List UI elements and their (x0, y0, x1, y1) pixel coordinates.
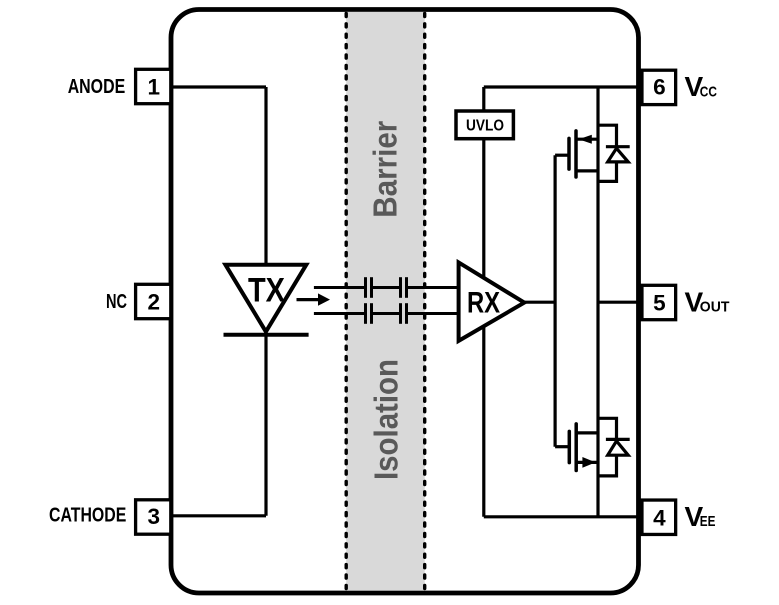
svg-text:Isolation: Isolation (368, 359, 405, 480)
svg-text:1: 1 (147, 74, 160, 99)
svg-text:4: 4 (653, 505, 666, 530)
svg-text:OUT: OUT (700, 299, 730, 316)
svg-text:ANODE: ANODE (68, 76, 126, 98)
svg-text:CATHODE: CATHODE (49, 505, 126, 527)
svg-text:TX: TX (248, 272, 285, 310)
svg-text:EE: EE (700, 513, 716, 530)
svg-text:2: 2 (147, 290, 160, 315)
svg-text:5: 5 (653, 291, 666, 316)
svg-text:NC: NC (106, 291, 127, 313)
svg-text:CC: CC (700, 83, 717, 100)
svg-text:3: 3 (147, 504, 160, 529)
svg-text:Barrier: Barrier (367, 121, 404, 218)
svg-text:RX: RX (467, 287, 500, 320)
svg-text:6: 6 (653, 75, 666, 100)
svg-text:UVLO: UVLO (466, 117, 504, 134)
